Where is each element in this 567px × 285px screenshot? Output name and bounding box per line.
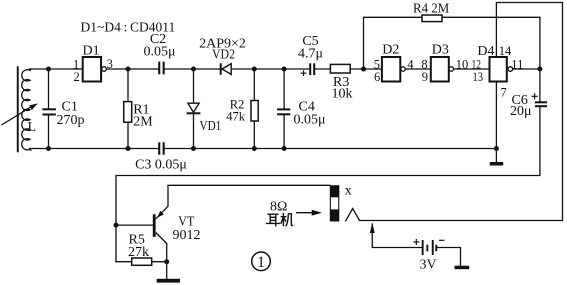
op-amp gate D2	[382, 57, 405, 82]
capacitor C4	[277, 108, 290, 115]
svg-text:7: 7	[501, 86, 507, 100]
wire R5 left	[116, 261, 132, 263]
svg-text:2: 2	[74, 70, 80, 84]
wire top rail segment 6	[350, 68, 382, 70]
svg-text:3V: 3V	[420, 258, 437, 273]
wire collector to ground	[166, 244, 168, 279]
svg-text:11: 11	[511, 58, 523, 72]
op-amp gate D4	[490, 57, 513, 82]
resistor R3	[330, 64, 350, 73]
svg-text:1: 1	[257, 254, 265, 271]
wire top rail segment 2	[107, 68, 158, 70]
svg-text:9: 9	[422, 70, 428, 84]
wire C1 branch	[48, 69, 50, 149]
jack plug contact	[345, 209, 359, 222]
svg-text:0.05μ: 0.05μ	[143, 44, 175, 59]
wire R5 right	[152, 261, 167, 263]
inductor L coil	[22, 69, 32, 150]
svg-text:10k: 10k	[332, 86, 353, 101]
battery B 3V cells	[422, 240, 437, 255]
wire R4 feedback left	[364, 17, 423, 69]
earphone jack socket X	[330, 185, 340, 221]
svg-text:x: x	[345, 184, 352, 199]
capacitor C3	[158, 142, 165, 154]
svg-text:270p: 270p	[57, 113, 85, 128]
capacitor C1	[42, 108, 56, 115]
Chinese characters er-ji (earphone) drawn as strokes	[266, 213, 293, 227]
wire pin7 to ground	[495, 82, 497, 162]
transistor VT collector	[156, 233, 167, 244]
ground at battery	[455, 266, 470, 270]
diode VD1	[187, 103, 201, 113]
wire top rail segment 7	[406, 68, 431, 70]
svg-text:0.05μ: 0.05μ	[294, 112, 326, 127]
wire battery line	[372, 224, 460, 266]
wire top rail segment 9	[513, 68, 540, 70]
capacitor C5	[309, 63, 315, 75]
svg-text:VD2: VD2	[212, 48, 235, 63]
svg-text:13: 13	[473, 70, 484, 84]
svg-text:6: 6	[374, 70, 380, 84]
transistor VT base bar	[153, 214, 156, 237]
wire top rail segment 4	[231, 68, 309, 70]
wire pin14 power loop	[496, 3, 562, 221]
op-amp gate D1	[83, 57, 107, 82]
svg-text:4.7μ: 4.7μ	[298, 47, 323, 62]
inductor L core bar	[17, 66, 19, 152]
svg-text:3: 3	[107, 57, 113, 71]
resistor R1	[124, 102, 132, 123]
circled figure number 1	[252, 252, 271, 271]
op-amp gate D3	[431, 57, 454, 82]
svg-text:D3: D3	[432, 43, 449, 58]
svg-text:C3 0.05μ: C3 0.05μ	[135, 158, 187, 173]
wire R2 branch	[253, 69, 255, 149]
battery plus sign	[413, 239, 419, 245]
svg-text:8Ω: 8Ω	[270, 200, 287, 215]
capacitor C2	[158, 62, 165, 75]
wire top rail segment 8	[453, 68, 489, 70]
wire R1 branch	[127, 69, 129, 149]
svg-text:27k: 27k	[128, 245, 149, 260]
svg-text:20μ: 20μ	[510, 104, 532, 119]
wire R4 feedback right	[442, 17, 540, 69]
svg-text:10: 10	[456, 58, 469, 72]
wire earphone plug line	[360, 220, 563, 222]
svg-text:R4 2M: R4 2M	[413, 1, 450, 16]
ground at bottom rail	[490, 162, 504, 166]
wire emitter to jack	[168, 185, 330, 206]
resistor R5	[132, 258, 152, 265]
battery up arrow	[370, 223, 375, 233]
diode VD2	[221, 63, 232, 75]
wire C6 branch upper	[539, 69, 541, 101]
wire top rail segment 1	[30, 68, 83, 70]
ground at VT collector	[157, 279, 180, 283]
C5 plus sign	[301, 70, 307, 76]
wire bottom rail segment 1	[30, 148, 159, 150]
wire top rail segment 3	[165, 68, 220, 70]
earphone pointer arrow	[296, 210, 322, 216]
wire C4 branch	[283, 69, 285, 149]
svg-text:VD1: VD1	[200, 119, 222, 134]
svg-text:47k: 47k	[226, 109, 246, 123]
resistor R4	[422, 15, 442, 22]
svg-text:L: L	[28, 120, 37, 135]
svg-text:D1: D1	[83, 44, 100, 59]
capacitor C6	[535, 101, 547, 107]
svg-text:9012: 9012	[173, 228, 201, 243]
battery minus sign	[439, 239, 445, 241]
transistor VT emitter	[156, 206, 168, 219]
C6 plus sign	[532, 93, 538, 99]
wire bottom rail segment 2	[165, 148, 497, 150]
wire VD1 branch	[193, 69, 195, 149]
inductor L tuning arrow	[2, 103, 38, 125]
svg-text:2M: 2M	[133, 114, 153, 129]
svg-text:14: 14	[499, 44, 512, 58]
svg-text:D2: D2	[382, 43, 399, 58]
wire top rail segment 5	[315, 68, 330, 70]
svg-text:4: 4	[407, 58, 414, 72]
wire C6 branch lower to base line	[116, 107, 540, 262]
wire base	[116, 224, 153, 226]
resistor R2	[251, 101, 258, 122]
